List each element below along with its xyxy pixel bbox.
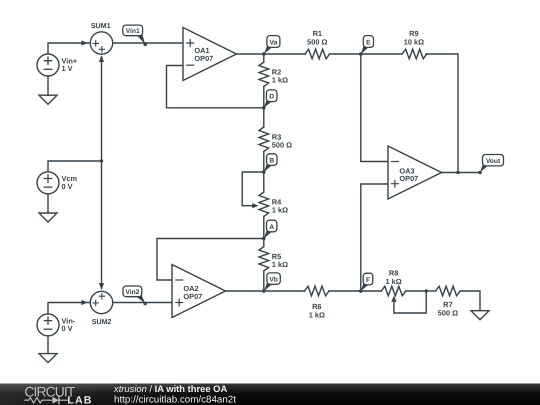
svg-text:LAB: LAB <box>67 395 91 405</box>
wire Vin- to SUM2 <box>48 303 90 314</box>
node label B <box>262 154 277 174</box>
wire Vcm to bus <box>48 161 102 172</box>
ground below Vcm <box>39 194 57 222</box>
wire R9 to right column down to OA3 output <box>426 54 458 173</box>
junction node F <box>359 289 362 292</box>
wire OA1 feedback from node D <box>167 66 264 108</box>
svg-text:SUM1: SUM1 <box>91 22 111 30</box>
wire R5 to Vb <box>263 271 265 291</box>
footer title and url <box>113 383 236 405</box>
svg-text:0 V: 0 V <box>62 182 73 191</box>
svg-text:Vin2: Vin2 <box>125 289 139 296</box>
svg-text:1 kΩ: 1 kΩ <box>309 310 325 319</box>
svg-text:Va: Va <box>269 40 277 47</box>
voltage source Vin+ 1V <box>37 54 78 76</box>
summer SUM2 <box>90 291 112 326</box>
junction node B <box>262 170 265 173</box>
voltage source Vcm 0V <box>37 172 78 194</box>
resistor R2 1 kOhm <box>259 62 288 87</box>
resistor R9 10 kOhm <box>402 29 427 59</box>
footer bar <box>0 384 540 405</box>
svg-text:Vin1: Vin1 <box>126 28 140 35</box>
svg-text:Vb: Vb <box>269 276 278 283</box>
wire OA1 output to node Va <box>237 53 264 55</box>
arrow into SUM2 west input <box>81 300 87 305</box>
wire R8 to junction <box>406 290 426 292</box>
node label F <box>359 273 373 293</box>
svg-text:B: B <box>269 158 274 165</box>
junction OA3 output <box>456 171 459 174</box>
wire R6 to node F <box>329 290 361 292</box>
CircuitLab logo <box>24 384 91 405</box>
wire SUM1 bottom to SUM2 top (common-mode bus) <box>101 57 103 289</box>
op-amp OA2 OP07 <box>172 265 226 318</box>
wire junction to R7 <box>426 290 435 292</box>
wire Va to R1 <box>264 53 305 55</box>
ground below Vin- <box>39 336 57 363</box>
svg-text:1 kΩ: 1 kΩ <box>385 277 401 286</box>
wire F to OA3 noninverting input <box>361 184 388 291</box>
svg-text:500 Ω: 500 Ω <box>307 38 327 47</box>
wire Va to R2 <box>263 54 265 62</box>
node label E <box>359 36 374 56</box>
resistor R6 1 kOhm <box>305 286 330 319</box>
wire R2 to D <box>263 87 265 108</box>
node label D <box>262 90 277 110</box>
node label A <box>262 220 277 240</box>
svg-text:10 kΩ: 10 kΩ <box>404 38 424 47</box>
svg-text:A: A <box>269 224 274 231</box>
wire F to R8 <box>361 290 382 292</box>
resistor R4 1 kOhm potentiometer <box>252 192 288 217</box>
node label Va <box>262 36 280 56</box>
junction node A <box>262 237 265 240</box>
svg-text:OP07: OP07 <box>183 292 202 301</box>
svg-text:OP07: OP07 <box>399 174 418 183</box>
junction node Va <box>262 52 265 55</box>
wire R7 to ground <box>460 291 480 311</box>
arrow into SUM1 west input <box>81 40 87 45</box>
op-amp OA1 OP07 <box>183 28 237 81</box>
ground at R7 <box>471 311 489 320</box>
summer SUM1 <box>90 22 112 54</box>
svg-text:SUM2: SUM2 <box>92 318 112 326</box>
junction Vcm bus <box>100 159 103 162</box>
node label Vout <box>478 155 503 175</box>
node label Vin2 <box>123 286 147 305</box>
wire OA3 output to Vout <box>442 172 481 174</box>
svg-text:500 Ω: 500 Ω <box>438 309 458 318</box>
wire E to R9 <box>361 53 402 55</box>
junction node D <box>262 106 265 109</box>
wire SUM1 to OA1 noninverting input <box>113 42 183 44</box>
resistor R7 500 Ohm <box>436 286 461 317</box>
wire D to R3 <box>263 108 265 127</box>
wire OA2 feedback from node A <box>157 239 264 281</box>
wire R8 wiper loop <box>394 291 426 313</box>
node label Vb <box>262 273 280 293</box>
svg-text:Vout: Vout <box>486 158 501 165</box>
wire SUM2 to OA2 noninverting input <box>113 302 172 304</box>
node label Vin1 <box>123 25 147 46</box>
wire A to R5 <box>263 239 265 247</box>
svg-text:1 kΩ: 1 kΩ <box>272 206 288 215</box>
svg-text:OP07: OP07 <box>194 54 213 63</box>
wire Vb to R6 <box>264 290 305 292</box>
svg-text:D: D <box>269 94 274 101</box>
resistor R8 1 kOhm potentiometer <box>381 269 406 302</box>
voltage source Vin- 0V <box>37 314 76 336</box>
svg-text:F: F <box>366 277 370 284</box>
svg-text:E: E <box>366 40 371 47</box>
resistor R5 1 kOhm <box>259 247 288 272</box>
arrow into SUM2 north input <box>99 283 104 290</box>
wire R4 to A <box>263 217 265 239</box>
wire Vin+ to SUM1 <box>48 43 90 54</box>
svg-text:1 kΩ: 1 kΩ <box>272 260 288 269</box>
wire R3 to B <box>263 152 265 173</box>
svg-text:xtrusion / IA with three OA: xtrusion / IA with three OA <box>113 383 227 394</box>
svg-text:http://circuitlab.com/c84an2t: http://circuitlab.com/c84an2t <box>114 395 236 405</box>
wire E to OA3 inverting input <box>361 54 388 162</box>
wire OA2 output to Vb <box>226 290 264 292</box>
svg-text:0 V: 0 V <box>62 324 73 333</box>
arrow into SUM1 south input <box>99 55 104 62</box>
wire R4 wiper loop from B <box>242 172 264 206</box>
op-amp OA3 OP07 <box>388 146 442 199</box>
resistor R3 500 Ohm <box>259 127 292 152</box>
wire B to R4 <box>263 172 265 192</box>
wire R1 to node E <box>330 53 361 55</box>
junction node E <box>359 52 362 55</box>
junction node Vb <box>262 289 265 292</box>
resistor R1 500 Ohm <box>305 29 330 59</box>
svg-text:500 Ω: 500 Ω <box>272 141 292 150</box>
svg-text:1 V: 1 V <box>62 64 73 73</box>
svg-text:1 kΩ: 1 kΩ <box>272 76 288 85</box>
junction R8 wiper net <box>425 289 428 292</box>
ground below Vin+ <box>39 76 57 104</box>
